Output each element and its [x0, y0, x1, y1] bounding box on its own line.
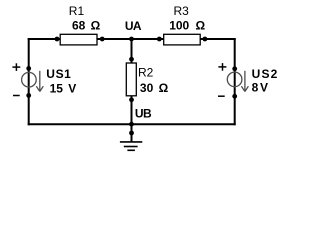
resistor R2	[126, 63, 136, 96]
svg-text:US2: US2	[252, 67, 279, 81]
svg-text:US1: US1	[46, 67, 71, 81]
node UB junction dot	[129, 122, 134, 127]
svg-text:15 V: 15 V	[50, 82, 77, 96]
resistor R3	[164, 34, 201, 45]
wire right vertical	[234, 38, 236, 125]
svg-text:30 Ω: 30 Ω	[140, 81, 169, 95]
wire left vertical	[28, 38, 30, 125]
US1 minus sign	[13, 95, 20, 97]
R2 terminal dot top	[129, 57, 134, 62]
R1 terminal dot left	[55, 37, 60, 42]
US2 terminal dot top	[232, 66, 237, 71]
svg-text:68 Ω: 68 Ω	[72, 18, 101, 32]
node UA junction dot	[129, 37, 134, 42]
resistor R1	[60, 34, 97, 45]
svg-text:R3: R3	[174, 4, 190, 18]
voltage source US1 circle	[22, 72, 37, 87]
svg-text:100 Ω: 100 Ω	[169, 18, 205, 32]
svg-text:R2: R2	[138, 65, 154, 79]
R2 terminal dot bottom	[129, 97, 134, 102]
wire bottom horizontal	[28, 123, 236, 125]
US2 voltage arrow	[241, 71, 248, 92]
ground terminal dot	[129, 131, 134, 136]
svg-text:8V: 8V	[252, 81, 270, 95]
wire top horizontal	[28, 38, 236, 40]
svg-text:R1: R1	[69, 4, 85, 18]
R3 terminal dot left	[157, 37, 162, 42]
US1 terminal dot top	[26, 66, 31, 71]
US1 terminal dot bottom	[26, 93, 31, 98]
R1 terminal dot right	[100, 37, 105, 42]
svg-text:UA: UA	[125, 19, 142, 33]
svg-text:UB: UB	[135, 107, 152, 121]
US2 terminal dot bottom	[232, 94, 237, 99]
US2 minus sign	[218, 95, 225, 97]
US2 plus sign	[218, 63, 226, 71]
voltage source US2 circle	[227, 72, 242, 87]
ground symbol	[120, 142, 142, 150]
US1 plus sign	[12, 63, 20, 71]
R3 terminal dot right	[203, 37, 208, 42]
wire middle vertical (UA to R2 to UB to ground)	[131, 39, 133, 64]
US1 voltage arrow	[36, 71, 43, 92]
